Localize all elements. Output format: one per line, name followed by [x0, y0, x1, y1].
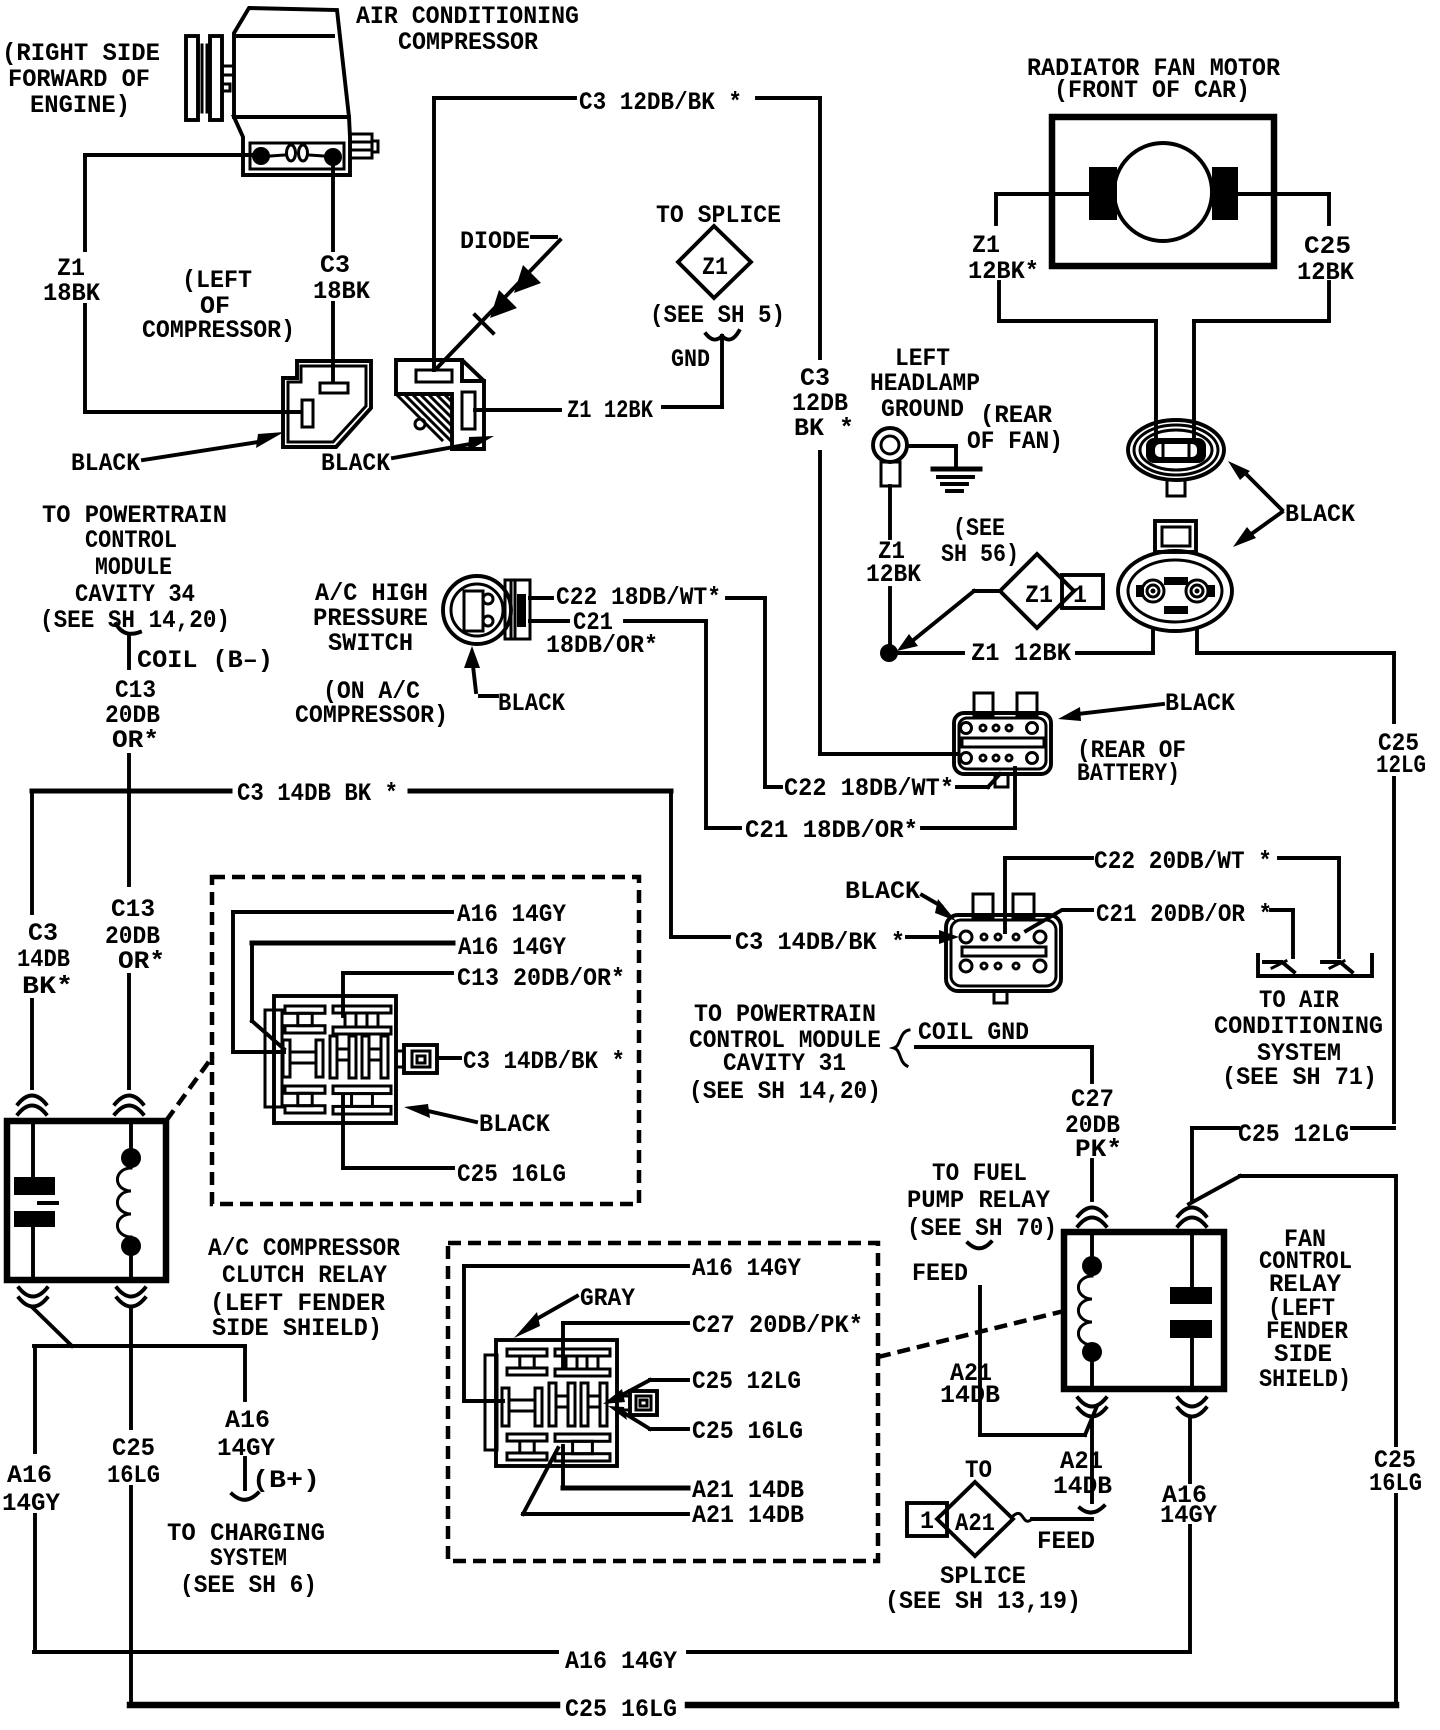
svg-text:BK*: BK*	[22, 972, 73, 1001]
svg-text:18DB/OR*: 18DB/OR*	[546, 631, 658, 660]
svg-text:BLACK: BLACK	[479, 1110, 550, 1139]
svg-text:14DB: 14DB	[940, 1381, 1000, 1410]
svg-text:COMPRESSOR): COMPRESSOR)	[142, 316, 295, 345]
svg-text:Z1: Z1	[972, 231, 1000, 260]
svg-text:A16: A16	[7, 1461, 52, 1490]
svg-text:A/C COMPRESSOR: A/C COMPRESSOR	[208, 1234, 400, 1263]
svg-text:TO AIR: TO AIR	[1259, 986, 1339, 1015]
svg-text:CAVITY 31: CAVITY 31	[723, 1049, 846, 1078]
svg-text:C25: C25	[1304, 232, 1351, 261]
svg-text:14DB: 14DB	[1053, 1472, 1112, 1501]
svg-text:FEED: FEED	[1037, 1527, 1095, 1556]
svg-text:C25 16LG: C25 16LG	[457, 1160, 566, 1189]
svg-text:TO FUEL: TO FUEL	[932, 1159, 1027, 1188]
svg-text:COIL (B–): COIL (B–)	[137, 646, 273, 675]
svg-text:12BK: 12BK	[1297, 258, 1354, 287]
svg-text:(SEE SH 6): (SEE SH 6)	[180, 1571, 317, 1600]
svg-text:OR*: OR*	[118, 947, 165, 976]
svg-text:12LG: 12LG	[1376, 751, 1426, 780]
svg-text:(SEE SH 14,20): (SEE SH 14,20)	[689, 1077, 881, 1106]
svg-text:A21 14DB: A21 14DB	[692, 1501, 804, 1530]
svg-text:(LEFT: (LEFT	[182, 266, 252, 295]
svg-text:TO SPLICE: TO SPLICE	[656, 201, 781, 230]
svg-text:A16 14GY: A16 14GY	[458, 933, 566, 962]
svg-text:A16 14GY: A16 14GY	[565, 1647, 677, 1676]
svg-text:(REAR: (REAR	[980, 401, 1052, 430]
svg-text:18BK: 18BK	[43, 279, 100, 308]
svg-text:SWITCH: SWITCH	[328, 629, 413, 658]
svg-text:BLACK: BLACK	[845, 877, 920, 906]
svg-text:CAVITY 34: CAVITY 34	[75, 580, 195, 609]
svg-text:14GY: 14GY	[2, 1489, 60, 1518]
svg-text:HEADLAMP: HEADLAMP	[870, 369, 980, 398]
svg-text:(SEE: (SEE	[953, 514, 1005, 543]
svg-text:C3 14DB BK *: C3 14DB BK *	[237, 779, 398, 808]
svg-text:(SEE SH 70): (SEE SH 70)	[907, 1214, 1057, 1243]
svg-text:C25: C25	[112, 1434, 155, 1463]
svg-text:1: 1	[1073, 581, 1087, 610]
svg-text:16LG: 16LG	[107, 1461, 160, 1490]
svg-text:C22 18DB/WT*: C22 18DB/WT*	[784, 774, 954, 803]
svg-text:C25 16LG: C25 16LG	[692, 1417, 803, 1446]
svg-text:BK *: BK *	[794, 414, 854, 443]
svg-text:(FRONT OF CAR): (FRONT OF CAR)	[1054, 76, 1250, 105]
svg-text:BATTERY): BATTERY)	[1077, 759, 1180, 788]
svg-text:BLACK: BLACK	[321, 449, 390, 478]
svg-text:CLUTCH RELAY: CLUTCH RELAY	[222, 1261, 387, 1290]
svg-text:Z1 12BK: Z1 12BK	[971, 639, 1071, 668]
svg-text:SIDE SHIELD): SIDE SHIELD)	[212, 1314, 382, 1343]
svg-text:1: 1	[920, 1507, 934, 1536]
svg-text:C3: C3	[28, 919, 58, 948]
svg-text:C3 14DB/BK *: C3 14DB/BK *	[735, 928, 905, 957]
svg-text:TO: TO	[965, 1456, 992, 1485]
svg-text:PUMP RELAY: PUMP RELAY	[907, 1186, 1050, 1215]
svg-text:CONDITIONING: CONDITIONING	[1214, 1012, 1383, 1041]
svg-text:Z1: Z1	[1025, 581, 1053, 610]
svg-text:PK*: PK*	[1075, 1135, 1122, 1164]
svg-text:SH 56): SH 56)	[941, 540, 1019, 569]
svg-text:12BK: 12BK	[866, 560, 921, 589]
svg-text:COMPRESSOR): COMPRESSOR)	[295, 701, 448, 730]
svg-text:ENGINE): ENGINE)	[30, 91, 130, 120]
svg-text:OR*: OR*	[112, 726, 159, 755]
svg-text:Z1: Z1	[702, 253, 728, 282]
svg-text:BLACK: BLACK	[71, 449, 140, 478]
svg-text:FORWARD OF: FORWARD OF	[8, 65, 150, 94]
svg-text:SHIELD): SHIELD)	[1259, 1365, 1351, 1394]
svg-text:TO POWERTRAIN: TO POWERTRAIN	[694, 1000, 876, 1029]
svg-text:12BK*: 12BK*	[968, 257, 1039, 286]
svg-text:GROUND: GROUND	[881, 395, 964, 424]
svg-text:(RIGHT SIDE: (RIGHT SIDE	[2, 39, 160, 68]
svg-text:SYSTEM: SYSTEM	[210, 1544, 287, 1573]
svg-text:C3 14DB/BK *: C3 14DB/BK *	[463, 1047, 625, 1076]
svg-text:C27: C27	[1071, 1085, 1114, 1114]
svg-text:A16 14GY: A16 14GY	[457, 900, 566, 929]
svg-text:GND: GND	[671, 345, 710, 374]
svg-text:18BK: 18BK	[313, 277, 370, 306]
svg-text:A16: A16	[225, 1406, 270, 1435]
svg-text:COIL GND: COIL GND	[918, 1018, 1029, 1047]
svg-text:BLACK: BLACK	[1165, 689, 1235, 718]
svg-text:(SEE SH 14,20): (SEE SH 14,20)	[40, 606, 230, 635]
svg-text:(SEE SH 13,19): (SEE SH 13,19)	[885, 1587, 1081, 1616]
svg-text:CONTROL: CONTROL	[85, 526, 177, 555]
svg-text:(SEE SH 5): (SEE SH 5)	[650, 301, 785, 330]
svg-text:A16 14GY: A16 14GY	[692, 1254, 801, 1283]
svg-text:(SEE SH 71): (SEE SH 71)	[1222, 1063, 1377, 1092]
svg-text:C21 18DB/OR*: C21 18DB/OR*	[745, 816, 918, 845]
svg-text:FEED: FEED	[912, 1259, 968, 1288]
svg-text:GRAY: GRAY	[580, 1284, 635, 1313]
svg-text:(B+): (B+)	[252, 1466, 320, 1495]
svg-text:C25 16LG: C25 16LG	[565, 1695, 677, 1724]
svg-text:C3 12DB/BK *: C3 12DB/BK *	[579, 88, 742, 117]
svg-text:C21 20DB/OR *: C21 20DB/OR *	[1096, 900, 1272, 929]
svg-text:C13 20DB/OR*: C13 20DB/OR*	[457, 964, 625, 993]
svg-text:C25 12LG: C25 12LG	[692, 1367, 801, 1396]
svg-text:BLACK: BLACK	[1285, 500, 1355, 529]
svg-text:Z1 12BK: Z1 12BK	[567, 396, 653, 425]
svg-text:C13: C13	[111, 895, 155, 924]
svg-text:BLACK: BLACK	[498, 689, 565, 718]
svg-text:DIODE: DIODE	[460, 227, 530, 256]
svg-text:A21: A21	[955, 1509, 995, 1538]
svg-text:C25 12LG: C25 12LG	[1238, 1120, 1349, 1149]
svg-text:MODULE: MODULE	[95, 553, 172, 582]
svg-text:COMPRESSOR: COMPRESSOR	[398, 28, 538, 57]
svg-text:AIR CONDITIONING: AIR CONDITIONING	[356, 2, 579, 31]
svg-text:C27 20DB/PK*: C27 20DB/PK*	[692, 1311, 863, 1340]
svg-text:C22 20DB/WT *: C22 20DB/WT *	[1094, 847, 1272, 876]
svg-text:14DB: 14DB	[17, 945, 70, 974]
svg-text:OF FAN): OF FAN)	[967, 427, 1063, 456]
svg-text:C3: C3	[320, 251, 350, 280]
